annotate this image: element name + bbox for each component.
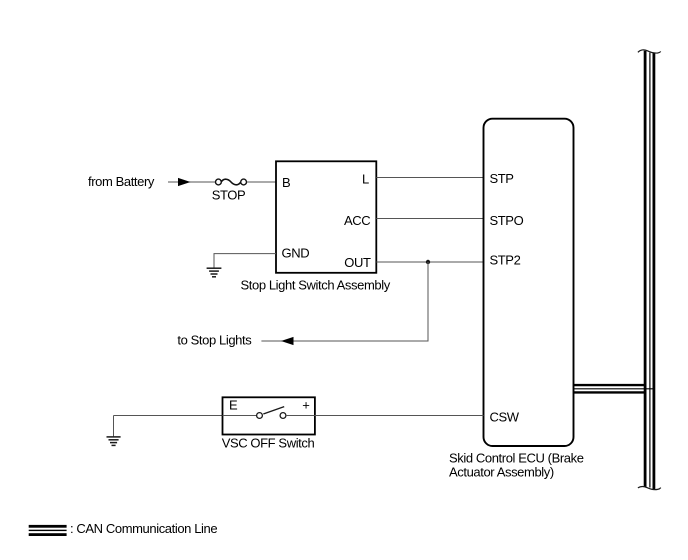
wire W9: VSC OFF switch to pin CSW — [315, 415, 484, 417]
svg-text:OUT: OUT — [344, 255, 371, 270]
wire W3: GND pin to ground G1 — [214, 254, 276, 268]
svg-text:B: B — [282, 175, 290, 190]
ground G1 — [207, 268, 222, 277]
wire W8: ground G2 to VSC OFF switch pin E — [114, 415, 223, 417]
CAN bus B1: vertical triple line — [645, 51, 654, 489]
wire W4: pin L to pin STP — [376, 177, 483, 179]
fuse F1 STOP — [216, 179, 247, 185]
VSC OFF switch S2 box — [223, 397, 315, 434]
legend: CAN line symbol — [29, 525, 67, 536]
svg-text:to Stop Lights: to Stop Lights — [177, 333, 252, 348]
svg-text:from Battery: from Battery — [88, 174, 155, 189]
svg-text:L: L — [362, 171, 369, 186]
svg-text:ACC: ACC — [344, 213, 370, 228]
stop light switch assembly S1 box — [276, 161, 376, 272]
skid control ECU U1 box — [484, 119, 574, 446]
CAN bus break mark top — [638, 50, 661, 53]
svg-text:Actuator Assembly): Actuator Assembly) — [449, 465, 554, 480]
wire W5: pin ACC to pin STPO — [376, 218, 483, 220]
wire W7: junction J1 down and left to stop lights — [261, 262, 428, 341]
svg-text:: CAN Communication Line: : CAN Communication Line — [70, 521, 217, 536]
CAN bus break mark bottom — [638, 487, 661, 490]
svg-text:STP2: STP2 — [490, 252, 521, 267]
ground G2 — [107, 416, 121, 446]
svg-text:Stop Light Switch Assembly: Stop Light Switch Assembly — [241, 277, 391, 292]
switch S2 contacts and lever — [223, 407, 315, 419]
label: Skid Control ECU (Brake Actuator Assembly) — [449, 451, 584, 480]
svg-text:+: + — [302, 397, 309, 412]
wire W6: pin OUT to pin STP2 — [376, 261, 483, 263]
CAN link: ECU to bus triple line — [574, 385, 655, 392]
arrow: battery current direction — [178, 178, 191, 186]
svg-text:E: E — [229, 397, 238, 412]
svg-text:VSC OFF Switch: VSC OFF Switch — [222, 435, 315, 450]
svg-text:STOP: STOP — [212, 188, 246, 203]
wire W1: battery feed to fuse — [168, 181, 215, 183]
svg-text:STPO: STPO — [490, 213, 524, 228]
arrow: to stop lights direction — [281, 337, 294, 345]
wire W2: fuse to pin B — [247, 181, 276, 183]
svg-text:Skid Control ECU (Brake: Skid Control ECU (Brake — [449, 451, 584, 466]
svg-text:GND: GND — [282, 245, 310, 260]
svg-text:CSW: CSW — [490, 409, 520, 424]
svg-text:STP: STP — [490, 171, 514, 186]
junction J1 on OUT wire — [426, 260, 430, 264]
